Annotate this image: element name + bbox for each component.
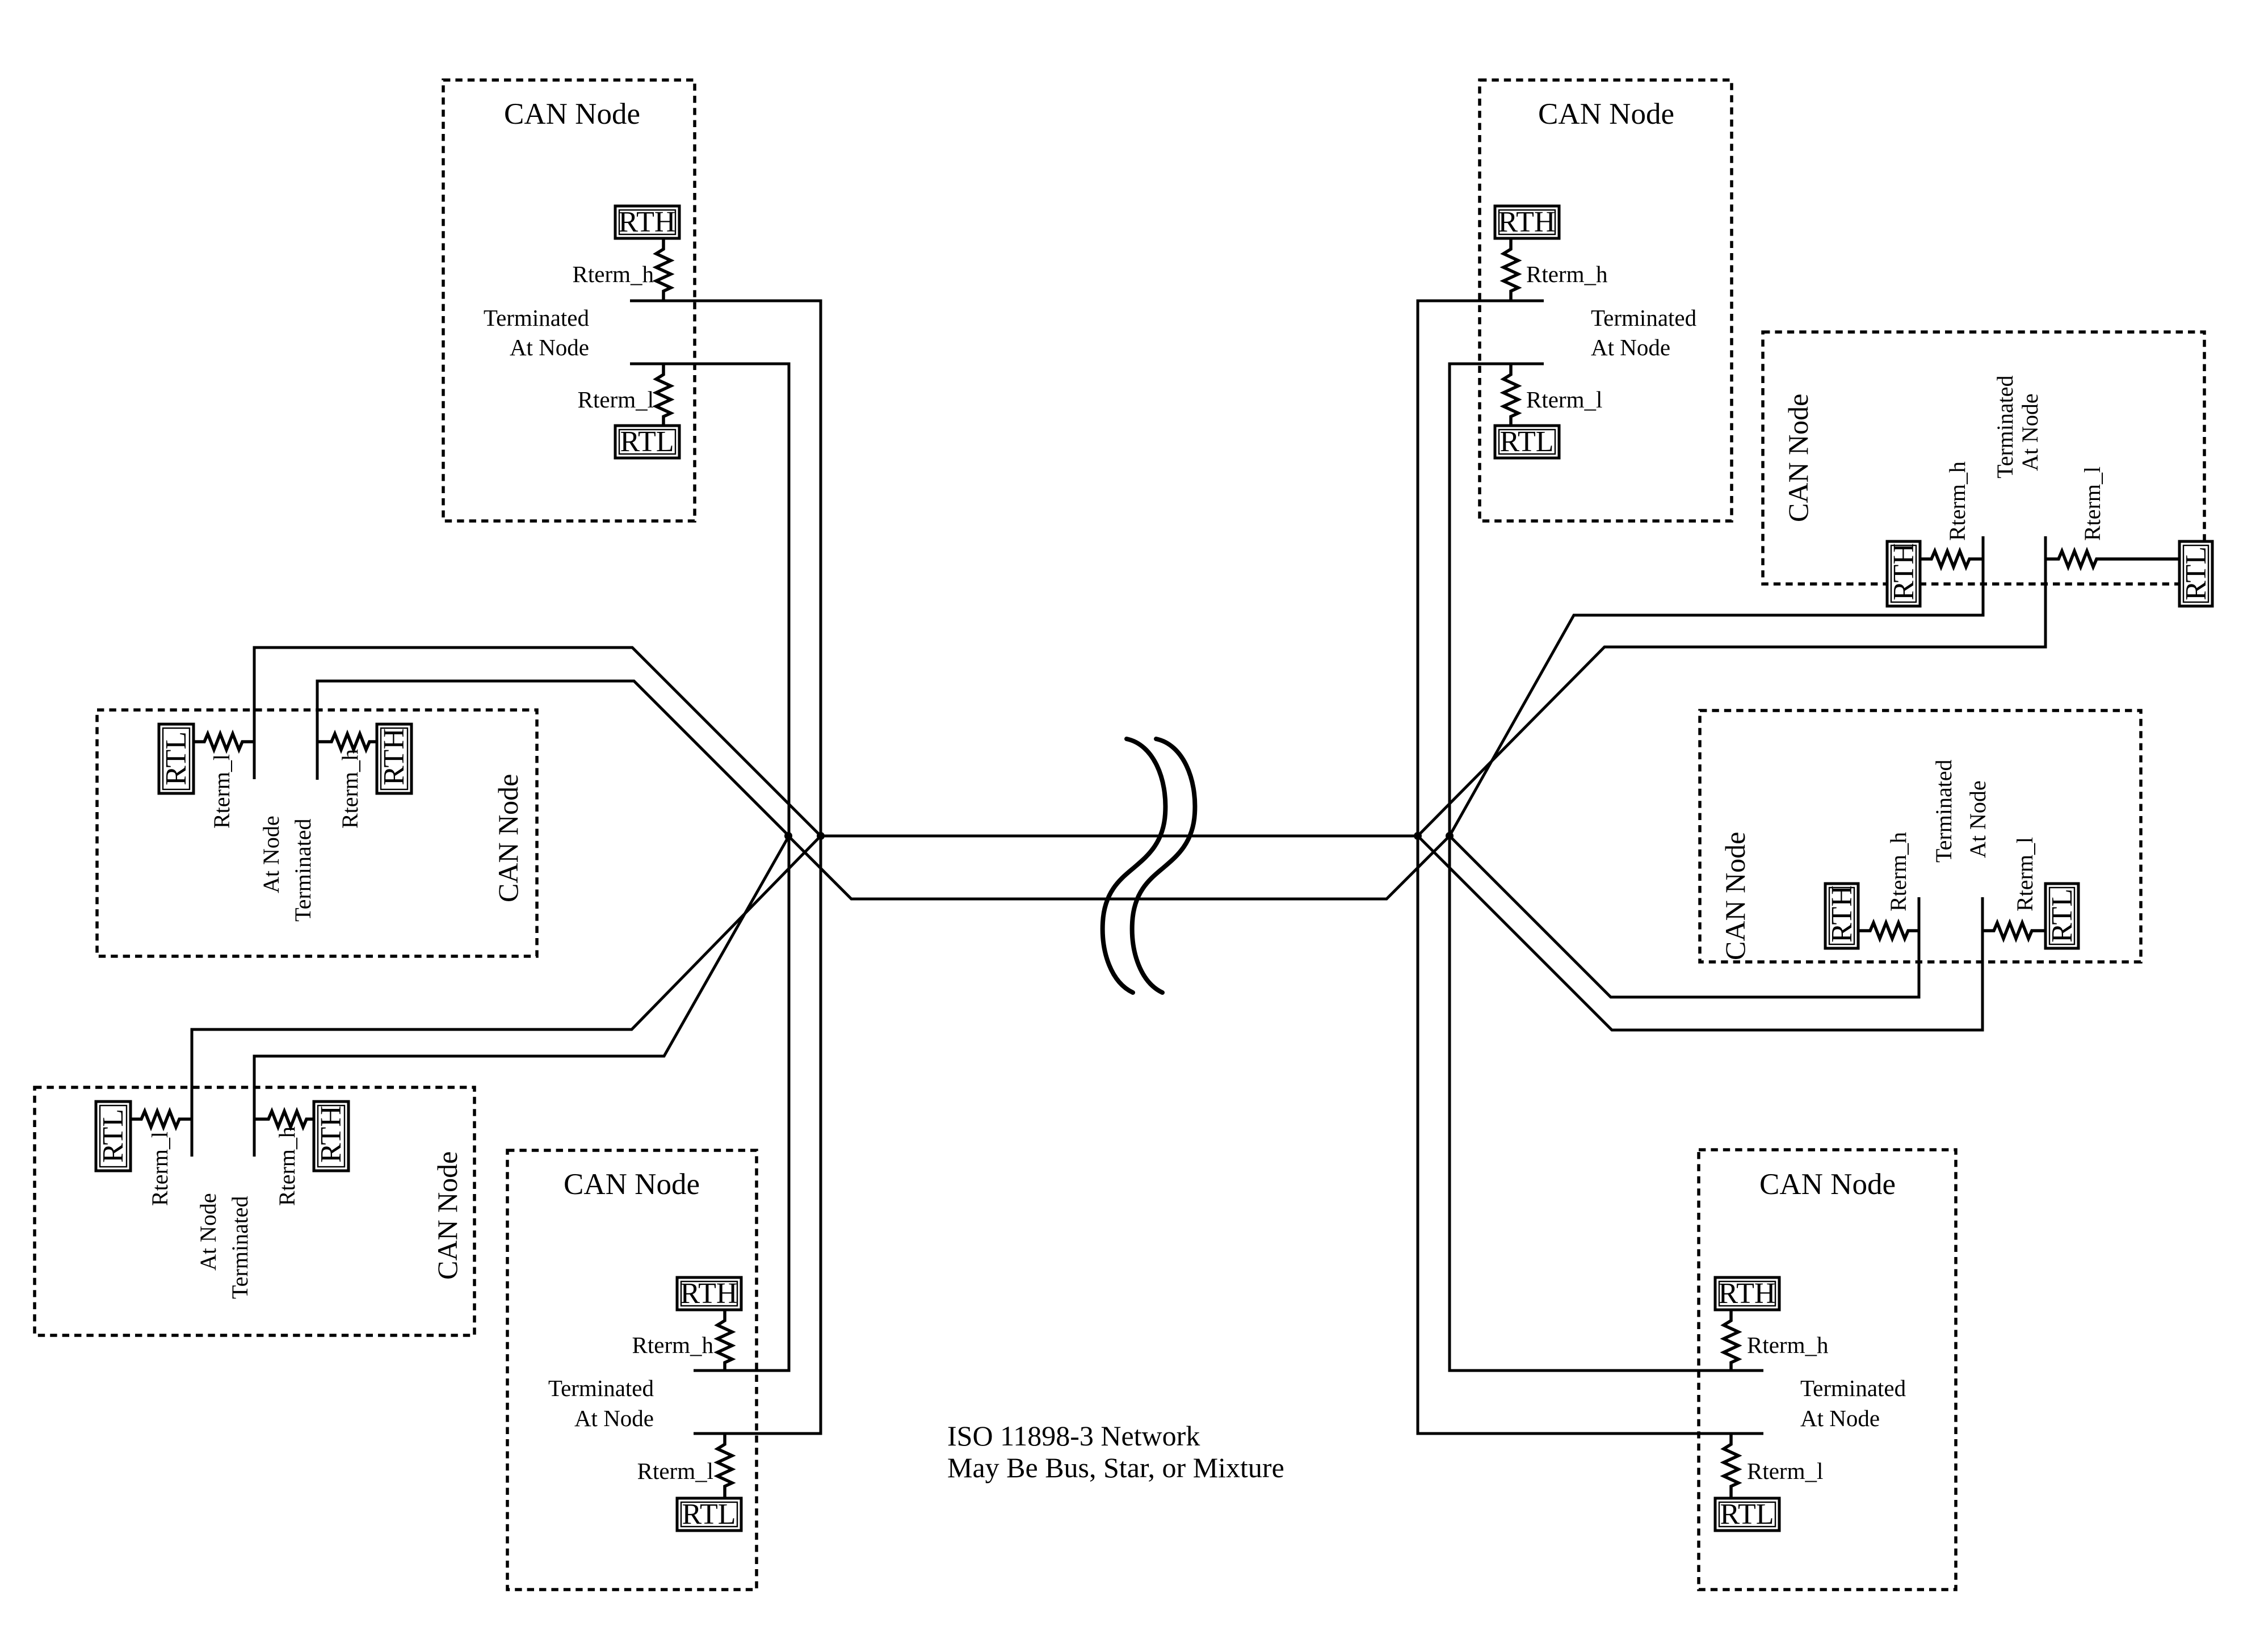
terminal RTL (bottom-left node) — [96, 1102, 131, 1171]
svg-text:Rterm_h: Rterm_h — [1526, 261, 1607, 287]
terminal RTL (bottom-center node) — [677, 1498, 741, 1531]
wire: left-middle node RTH stub + horizontal + diagonal to node A — [317, 681, 789, 836]
wire: top-right node CAN_L stub + vertical bus drop + bottom-right node Rterm_h stub — [1450, 364, 1763, 1371]
svg-text:CAN Node: CAN Node — [1538, 98, 1674, 131]
node box: CAN Node right-upper — [1763, 332, 2204, 584]
wire: right-middle node RTL stub + horizontal + diagonal to node C — [1418, 836, 1982, 1030]
resistor Rterm_h (right-upper node) — [1921, 551, 1983, 567]
svg-text:At Node: At Node — [258, 816, 284, 893]
svg-text:Rterm_l: Rterm_l — [637, 1458, 713, 1484]
svg-text:CAN Node: CAN Node — [1759, 1168, 1896, 1201]
svg-text:RTH: RTH — [315, 1105, 347, 1163]
svg-text:Rterm_h: Rterm_h — [632, 1332, 713, 1358]
resistor Rterm_h (left-middle node) — [317, 734, 377, 750]
resistor Rterm_h (right-middle node) — [1858, 923, 1919, 939]
wire: top-left node CAN_H stub + vertical bus drop + bottom-center node Rterm_l stub — [630, 301, 821, 1434]
resistor Rterm_l (bottom-right node) — [1724, 1434, 1738, 1498]
terminal RTH (top-left node) — [615, 206, 679, 238]
resistor Rterm_h (bottom-left node) — [254, 1111, 314, 1127]
label: Terminated At Node (bottom-right node) — [1800, 1375, 1906, 1431]
terminal RTH (bottom-left node) — [314, 1102, 348, 1171]
cable break symbol right squiggle — [1132, 739, 1195, 993]
terminal RTL (bottom-right node) — [1715, 1498, 1779, 1531]
wire: upper bus line CAN_H between junctions — [821, 835, 1418, 838]
svg-text:CAN Node: CAN Node — [504, 98, 640, 131]
node box: CAN Node top-left — [443, 80, 695, 521]
terminal RTH (top-right node) — [1495, 206, 1559, 238]
node box: CAN Node top-right — [1480, 80, 1732, 521]
wire: left-middle node RTL stub + horizontal + diagonal to node B — [254, 648, 821, 836]
svg-text:RTL: RTL — [1499, 426, 1553, 458]
svg-text:RTL: RTL — [620, 426, 674, 458]
node box: CAN Node bottom-right — [1699, 1150, 1956, 1590]
svg-text:ISO 11898-3 Network: ISO 11898-3 Network — [947, 1420, 1200, 1452]
wire: bottom-left node RTL stub + horizontal + diagonal to node B — [192, 836, 821, 1157]
wire: right-middle node RTH stub + horizontal + diagonal to node D — [1450, 836, 1919, 997]
svg-text:Rterm_l: Rterm_l — [2080, 466, 2105, 541]
terminal RTL (right-upper node) — [2179, 541, 2212, 606]
svg-text:CAN Node: CAN Node — [431, 1151, 463, 1280]
resistor Rterm_l (right-upper node) — [2045, 551, 2179, 567]
terminal RTL (right-middle node) — [2045, 884, 2078, 948]
label: Terminated At Node (top-left node) — [484, 305, 589, 360]
terminal RTL (top-left node) — [615, 426, 679, 458]
svg-text:At Node: At Node — [195, 1193, 221, 1271]
svg-text:RTH: RTH — [681, 1277, 738, 1310]
svg-text:Terminated: Terminated — [1992, 375, 2018, 478]
label: Terminated / At Node (right-middle node, rotated) — [1931, 759, 1990, 863]
wire: top-left node CAN_L stub + vertical bus drop + bottom-center node Rterm_h stub — [630, 364, 789, 1371]
terminal RTL (left-middle node) — [159, 724, 194, 793]
svg-text:Rterm_h: Rterm_h — [1944, 461, 1970, 541]
svg-text:Terminated: Terminated — [1931, 759, 1956, 863]
resistor Rterm_l (left-middle node) — [194, 734, 254, 750]
svg-text:Terminated: Terminated — [1591, 305, 1696, 331]
svg-text:Rterm_l: Rterm_l — [209, 754, 234, 829]
svg-text:RTL: RTL — [97, 1109, 129, 1163]
terminal RTL (top-right node) — [1495, 426, 1559, 458]
resistor Rterm_h (bottom-center node) — [717, 1310, 732, 1371]
resistor Rterm_h (bottom-right node) — [1724, 1310, 1738, 1371]
cable break symbol left squiggle — [1103, 739, 1166, 993]
svg-text:Rterm_h: Rterm_h — [573, 261, 654, 287]
svg-text:RTH: RTH — [619, 206, 676, 238]
svg-text:RTH: RTH — [1498, 206, 1556, 238]
svg-text:Rterm_h: Rterm_h — [1885, 832, 1911, 911]
svg-text:Terminated: Terminated — [290, 818, 316, 922]
svg-text:Rterm_l: Rterm_l — [1526, 386, 1602, 413]
svg-text:At Node: At Node — [510, 334, 589, 360]
svg-text:RTL: RTL — [1720, 1498, 1774, 1531]
svg-text:At Node: At Node — [1965, 780, 1990, 858]
svg-text:Terminated: Terminated — [227, 1196, 253, 1299]
terminal RTH (left-middle node) — [377, 724, 411, 793]
label: At Node / Terminated (bottom-left node, rotated) — [195, 1193, 253, 1299]
svg-text:RTH: RTH — [378, 728, 410, 785]
terminal RTH (right-upper node) — [1887, 541, 1920, 606]
svg-text:Rterm_h: Rterm_h — [274, 1126, 300, 1206]
resistor Rterm_l (top-left node) — [656, 364, 671, 426]
node box: CAN Node bottom-center — [507, 1150, 757, 1590]
svg-text:CAN Node: CAN Node — [564, 1168, 700, 1201]
svg-text:Rterm_l: Rterm_l — [1747, 1458, 1823, 1484]
svg-text:Rterm_l: Rterm_l — [147, 1132, 173, 1206]
resistor Rterm_h (top-right node) — [1503, 238, 1518, 301]
svg-text:At Node: At Node — [2017, 393, 2043, 471]
svg-text:Terminated: Terminated — [548, 1375, 654, 1401]
node box: CAN Node right-middle — [1700, 711, 2141, 962]
svg-text:At Node: At Node — [1591, 334, 1670, 360]
resistor Rterm_l (bottom-left node) — [131, 1111, 192, 1127]
terminal RTH (bottom-center node) — [677, 1277, 741, 1310]
terminal RTH (bottom-right node) — [1715, 1277, 1779, 1310]
svg-text:RTL: RTL — [2180, 547, 2212, 600]
terminal RTH (right-middle node) — [1825, 884, 1858, 948]
svg-text:At Node: At Node — [1800, 1405, 1880, 1431]
svg-text:RTH: RTH — [1826, 885, 1858, 943]
wire: lower bus line CAN_L with 45-degree risers to node A and node D — [788, 836, 1450, 899]
svg-text:RTL: RTL — [160, 732, 192, 785]
svg-text:Terminated: Terminated — [1800, 1375, 1906, 1401]
label: At Node / Terminated (left-middle node, rotated) — [258, 816, 316, 922]
label: Terminated At Node (top-right node) — [1591, 305, 1696, 360]
wire: right-upper node RTH stub + horizontal + diagonal to node D — [1450, 536, 1983, 836]
node D: junction dot right bus CAN_L — [1446, 832, 1454, 840]
svg-text:RTL: RTL — [2046, 889, 2078, 943]
svg-text:Rterm_l: Rterm_l — [2012, 837, 2038, 911]
svg-text:May Be Bus, Star, or Mixture: May Be Bus, Star, or Mixture — [947, 1452, 1284, 1483]
resistor Rterm_l (right-middle node) — [1982, 923, 2045, 939]
svg-text:Rterm_h: Rterm_h — [337, 749, 363, 829]
svg-text:Rterm_l: Rterm_l — [578, 386, 654, 413]
node box: CAN Node left-middle — [97, 710, 537, 956]
svg-text:CAN Node: CAN Node — [1719, 832, 1751, 960]
svg-text:Terminated: Terminated — [484, 305, 589, 331]
node B: junction dot left bus CAN_H — [817, 832, 825, 840]
svg-text:Rterm_h: Rterm_h — [1747, 1332, 1828, 1358]
svg-text:CAN Node: CAN Node — [1782, 394, 1814, 522]
svg-text:RTH: RTH — [1888, 543, 1920, 600]
svg-text:CAN Node: CAN Node — [492, 774, 524, 902]
svg-text:At Node: At Node — [574, 1405, 654, 1431]
resistor Rterm_l (top-right node) — [1503, 364, 1518, 426]
wire: top-right node CAN_H stub + vertical bus drop + bottom-right node Rterm_l stub — [1418, 301, 1763, 1434]
resistor Rterm_h (top-left node) — [656, 238, 671, 301]
svg-text:RTH: RTH — [1719, 1277, 1776, 1310]
wire: right-upper node RTL stub + horizontal + diagonal to node C — [1418, 536, 2045, 836]
wire: bottom-left node RTH stub + horizontal + diagonal to node A — [254, 836, 789, 1157]
label: Terminated At Node (bottom-center node) — [548, 1375, 654, 1431]
label: Terminated / At Node (right-upper node, rotated) — [1992, 375, 2043, 478]
node A: junction dot left bus CAN_L — [784, 832, 792, 840]
node box: CAN Node bottom-left — [35, 1087, 474, 1335]
node C: junction dot right bus CAN_H — [1414, 832, 1422, 840]
resistor Rterm_l (bottom-center node) — [717, 1434, 732, 1498]
svg-text:RTL: RTL — [682, 1498, 736, 1531]
